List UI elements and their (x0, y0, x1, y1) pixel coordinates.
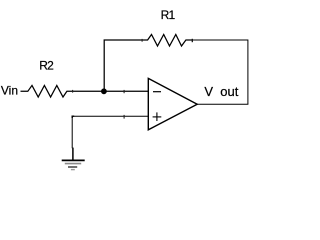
svg-text:Vin: Vin (1, 84, 18, 98)
svg-text:R1: R1 (161, 8, 176, 22)
svg-text:R2: R2 (39, 59, 54, 73)
svg-text:V out: V out (204, 84, 238, 99)
